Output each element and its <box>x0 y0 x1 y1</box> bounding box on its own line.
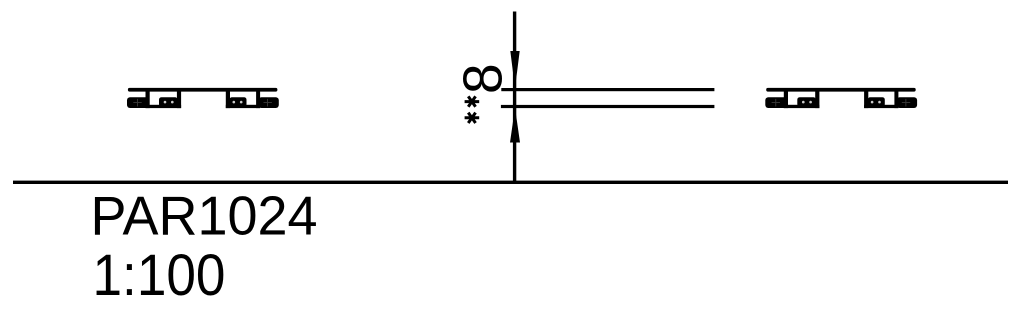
svg-text:8: 8 <box>452 63 514 94</box>
dimension extension line <box>513 12 516 182</box>
dimension arrow pointing up <box>510 108 520 143</box>
dimension footnote asterisk 2 <box>465 113 480 123</box>
svg-text:PAR1024: PAR1024 <box>91 185 318 247</box>
board bottom edge line <box>501 105 715 108</box>
left board assembly <box>127 88 279 108</box>
right board assembly <box>765 88 917 108</box>
board top edge line <box>501 88 714 91</box>
svg-text:1:100: 1:100 <box>93 243 226 308</box>
dimension footnote asterisk 1 <box>465 96 480 106</box>
dimension arrow pointing down <box>510 51 519 88</box>
ground line <box>13 181 1008 184</box>
